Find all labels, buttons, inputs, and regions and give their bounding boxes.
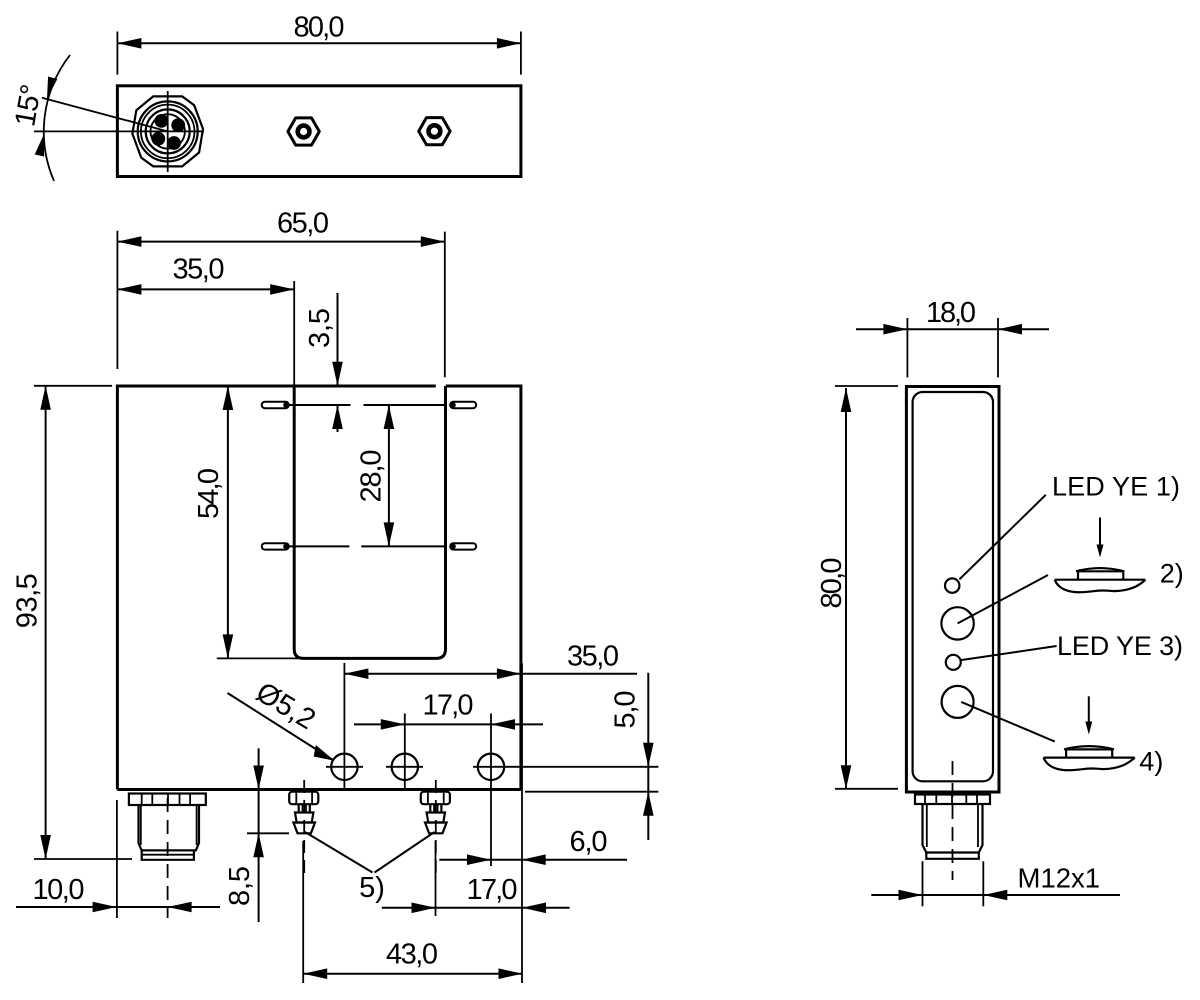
dimension 15 degrees [9,55,167,181]
nozzle left [289,792,318,834]
LED 1 [945,578,959,592]
side view centerline [952,761,954,880]
svg-text:35,0: 35,0 [567,640,619,672]
LED 3 [946,655,961,670]
connector circle 2 [141,105,195,159]
slit row 2 [262,543,477,549]
dimension 80,0 side [816,386,898,789]
dimension 54,0 [193,386,302,658]
svg-text:2): 2) [1160,559,1184,589]
svg-text:65,0: 65,0 [277,208,329,240]
dimension 8,5 [224,748,289,922]
dimension diameter 5,2 leader [228,676,337,766]
connector pin 2 [171,118,185,132]
connector pin 1 [155,114,169,128]
svg-text:93,5: 93,5 [12,573,44,628]
svg-text:10,0: 10,0 [33,874,85,906]
svg-text:17,0: 17,0 [423,690,474,722]
svg-text:28,0: 28,0 [356,450,388,503]
dimension 35,0 upper [117,254,294,387]
button icon 4 [961,696,1163,776]
svg-text:35,0: 35,0 [173,254,225,286]
label LED YE 1) [959,472,1180,580]
svg-text:4): 4) [1139,747,1163,777]
nozzle left centerline [303,780,305,876]
dimension 10,0 [16,800,220,918]
dimension 6,0 [439,663,627,983]
label LED YE 3) [960,631,1183,661]
dimension 28,0 [356,405,395,546]
svg-text:LED YE 1): LED YE 1) [1052,472,1180,502]
svg-text:80,0: 80,0 [816,558,848,609]
svg-text:54,0: 54,0 [193,468,225,519]
svg-text:80,0: 80,0 [294,11,345,43]
button 2 [941,607,973,639]
dimension 93,5 [12,386,133,859]
connector centerline front [167,798,169,918]
front view body [117,385,521,790]
connector pin 4 [167,136,181,150]
dimension 65,0 [117,208,444,378]
dimension M12x1 [871,861,1120,906]
hex nut right [419,118,450,145]
slit row 1 [262,402,477,408]
M12 connector front view [129,794,206,860]
svg-text:M12x1: M12x1 [1018,863,1101,894]
svg-text:17,0: 17,0 [467,874,518,906]
svg-text:LED YE 3): LED YE 3) [1057,631,1183,661]
svg-text:8,5: 8,5 [224,866,256,906]
dimension 17,0 lower [382,841,570,916]
M12 connector side view [915,795,990,859]
connector circle outer [138,101,198,161]
svg-text:43,0: 43,0 [386,939,438,971]
dimension 18,0 [856,297,1049,377]
svg-text:18,0: 18,0 [926,297,976,329]
connector centerline vertical [167,91,169,172]
connector circle thick [146,109,190,153]
connector centerline horizontal [34,130,204,132]
dimension 43,0 [303,841,522,983]
button 4 [942,686,974,718]
mounting hole 1 [326,663,363,790]
button icon 2 [958,518,1184,624]
svg-text:6,0: 6,0 [570,826,608,858]
svg-text:5): 5) [359,872,385,904]
label 5) leader [305,832,435,904]
nozzle right centerline [435,780,437,876]
svg-text:5,0: 5,0 [610,691,642,729]
hex nut left [288,118,319,145]
nozzle right [421,792,450,834]
mounting hole 3 [473,714,658,867]
connector circle inner [151,114,185,148]
side view body [906,387,999,793]
dimension 35,0 lower [344,640,637,679]
connector pin 3 [151,132,165,146]
dimension 17,0 upper [354,690,543,730]
dimension 80,0 [117,11,521,74]
dimension 5,0 [525,673,658,840]
M12 connector top view octagon [132,96,203,166]
dimension 3,5 [304,293,343,432]
mounting hole 2 [386,714,423,791]
fork slot [294,386,445,658]
svg-text:3,5: 3,5 [304,308,336,348]
top view body [117,86,521,177]
